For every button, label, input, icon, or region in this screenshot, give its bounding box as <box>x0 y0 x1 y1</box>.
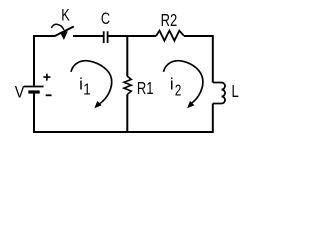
svg-text:C: C <box>101 9 110 28</box>
mesh current i1 arrowhead <box>94 101 101 108</box>
svg-text:1: 1 <box>83 82 91 99</box>
mesh current i2 arrowhead <box>187 101 194 108</box>
battery V negative plate (short thick) <box>28 90 39 93</box>
capacitor C right plate <box>107 31 109 43</box>
inductor L (jog + 3 coil bumps + jog) <box>213 83 225 104</box>
label C <box>101 9 110 28</box>
label V <box>15 84 25 102</box>
switch K arrowhead <box>60 31 68 40</box>
resistor R2 zigzag <box>156 31 184 41</box>
battery minus sign <box>46 94 52 96</box>
label R2 <box>161 11 178 31</box>
svg-text:L: L <box>232 82 240 101</box>
wire: capacitor to R2 (through middle junction) <box>109 35 157 37</box>
svg-text:K: K <box>61 6 69 25</box>
wire: right vertical below inductor, bottom wire, left vertical up to battery <box>34 93 213 132</box>
svg-text:2: 2 <box>175 81 182 99</box>
mesh current i2 arc <box>164 61 203 104</box>
wire: R2 to top-right corner, right vertical down to inductor <box>184 36 213 83</box>
wire: middle branch lower <box>126 94 128 132</box>
battery V positive plate (long) <box>24 86 44 88</box>
svg-text:V: V <box>15 84 25 102</box>
capacitor C left plate <box>103 31 105 43</box>
label L <box>232 82 240 101</box>
svg-text:R2: R2 <box>161 11 178 31</box>
mesh current i1 arc <box>71 61 112 104</box>
resistor R1 zigzag <box>124 76 131 94</box>
wire: middle branch upper <box>126 36 128 76</box>
label K <box>61 6 69 25</box>
svg-text:i: i <box>79 75 83 94</box>
wire: switch to capacitor <box>73 35 103 37</box>
battery plus sign <box>43 74 50 81</box>
svg-text:R1: R1 <box>137 79 154 99</box>
switch K blade <box>56 27 74 36</box>
svg-text:i: i <box>170 75 174 94</box>
wire: top-left corner and left vertical down to battery <box>34 36 56 86</box>
switch K closing arrow arc <box>51 24 64 30</box>
label R1 <box>137 79 154 99</box>
